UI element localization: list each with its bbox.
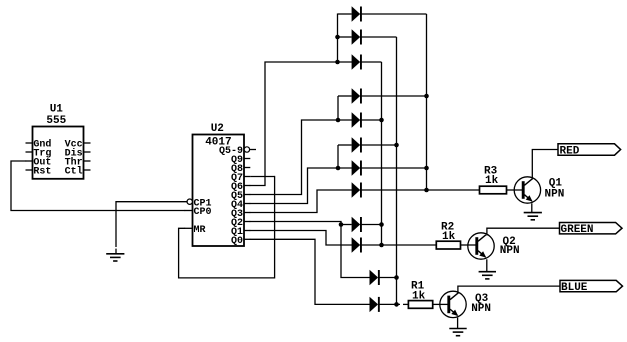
- U2 pin Q0 stub: [244, 238, 250, 240]
- wire D2 anode: [338, 36, 352, 38]
- U2 pin Q5 stub: [244, 194, 250, 196]
- junction D6 cathode on BLUE bus: [394, 143, 399, 148]
- svg-text:GREEN: GREEN: [561, 224, 594, 236]
- diode D4: [352, 88, 361, 103]
- svg-text:1k: 1k: [412, 290, 426, 302]
- wire D6 anode: [338, 144, 352, 146]
- U1 pin Ctl stub: [84, 169, 91, 171]
- wire Q1 collector to RED flag: [532, 150, 558, 179]
- diode D2: [352, 29, 361, 44]
- wire U2.MR to Q7 loop: [179, 177, 275, 278]
- junction D9 cathode on GREEN bus: [379, 222, 384, 227]
- diode D8: [352, 182, 361, 197]
- U2 pin Q5-9 stub: [250, 149, 256, 151]
- wire Q3 emitter to ground: [457, 318, 459, 329]
- wire D4 cathode: [362, 95, 427, 97]
- junction GREEN bus to base line: [379, 243, 384, 248]
- transistor Q1: [514, 177, 540, 203]
- U2 pin CP1 inversion bubble: [187, 199, 192, 204]
- svg-text:RED: RED: [560, 145, 580, 157]
- wire U2.Q2 to diode D9/D11 anode bus: [250, 222, 369, 278]
- svg-text:CP0: CP0: [194, 207, 212, 218]
- U1 pin Vcc stub: [84, 142, 91, 144]
- svg-text:NPN: NPN: [545, 188, 565, 200]
- junction D4 cathode on RED bus: [424, 94, 429, 99]
- ground GND3 under Q2: [479, 271, 496, 273]
- junction D5 cathode on GREEN bus: [379, 118, 384, 123]
- wire D7 cathode: [362, 167, 427, 169]
- svg-text:NPN: NPN: [500, 245, 520, 257]
- diode D7: [352, 160, 361, 175]
- wire D2 cathode to BLUE bus: [362, 36, 397, 38]
- svg-text:U2: U2: [211, 123, 224, 135]
- U2 pin Q6 stub: [244, 185, 250, 187]
- node BLUE output flag: [560, 280, 623, 291]
- diode D12: [370, 297, 379, 312]
- diode D11: [370, 270, 379, 285]
- U1 pin Thr stub: [84, 160, 91, 162]
- svg-text:U1: U1: [50, 103, 64, 115]
- svg-text:555: 555: [46, 115, 66, 127]
- diode D6: [352, 137, 361, 152]
- U2 pin Q5-9 inversion bubble: [244, 147, 249, 152]
- wire U2.Q5 to diode D4-D5 anode bus: [250, 120, 351, 195]
- wire anode bus D1-D3 vertical: [337, 14, 339, 63]
- op-amp U1 555 timer body: [33, 127, 84, 179]
- U2 pin Q1 stub: [244, 230, 250, 232]
- wire ground stub: [115, 249, 117, 254]
- ground GND2 under Q1: [524, 212, 542, 214]
- node RED output flag: [558, 144, 621, 155]
- junction D7 anode: [336, 166, 341, 171]
- U2 pin Q7 stub: [244, 176, 250, 178]
- U2 pin Q2 stub: [244, 221, 250, 223]
- junction D9 anode: [339, 222, 344, 227]
- wire D1 anode: [338, 13, 352, 15]
- wire R1 to Q3 base: [433, 303, 448, 305]
- ground GND4 under Q3: [449, 328, 466, 330]
- junction D7 cathode on RED bus: [424, 166, 429, 171]
- wire D9 anode: [341, 224, 352, 226]
- wire D3 cathode to GREEN bus: [362, 61, 382, 63]
- wire U2.Q7 row: [250, 176, 274, 178]
- svg-text:BLUE: BLUE: [561, 282, 588, 294]
- wire anode bus D4-D5 vertical: [337, 96, 339, 120]
- diode D5: [352, 112, 361, 127]
- junction D5 anode: [336, 118, 341, 123]
- wire Q2 collector to GREEN flag: [487, 228, 560, 235]
- U1 pin Gnd stub: [26, 142, 33, 144]
- junction RED bus to base line: [424, 188, 429, 193]
- svg-text:Q0: Q0: [231, 236, 243, 247]
- wire GREEN bus vertical: [381, 62, 383, 245]
- transistor Q2: [468, 233, 494, 259]
- junction D3 anode: [335, 60, 340, 65]
- junction D11 cathode on BLUE bus: [394, 275, 399, 280]
- wire Q2 emitter to ground: [486, 259, 488, 271]
- diode D3: [352, 54, 361, 69]
- diode D9: [352, 217, 361, 232]
- wire U2.Q0 to diode D12 anode: [250, 239, 369, 304]
- wire Q1 emitter to ground: [531, 203, 533, 212]
- wire D4 anode: [338, 95, 352, 97]
- resistor R3 body: [480, 186, 507, 194]
- svg-text:Ctl: Ctl: [65, 166, 83, 178]
- wire BLUE bus vertical: [396, 37, 398, 304]
- U2 pin Q4 stub: [244, 203, 250, 205]
- wire D10 cathode to R2: [362, 244, 437, 246]
- U2 pin CP0 stub: [185, 210, 193, 212]
- U1 pin Dis stub: [84, 151, 91, 153]
- svg-text:1k: 1k: [442, 231, 456, 243]
- wire anode bus D6-D7 vertical: [337, 145, 339, 168]
- wire U1.Out to U2.CP0: [11, 161, 185, 211]
- U1 pin Rst stub: [26, 169, 33, 171]
- wire U2.CP1 to ground: [116, 202, 187, 247]
- junction D2 anode: [335, 35, 340, 40]
- svg-text:MR: MR: [194, 225, 206, 236]
- wire R2 to Q2 base: [461, 244, 476, 246]
- U2 pin Q8 stub: [244, 167, 250, 169]
- U2 pin MR stub: [185, 227, 193, 229]
- U1 pin Out stub: [26, 160, 33, 162]
- wire D9 cathode: [362, 224, 382, 226]
- wire U2.Q6 to diode D1-D3 anode bus: [250, 62, 351, 186]
- wire RED bus vertical: [426, 14, 428, 190]
- wire D1 cathode to RED bus: [362, 13, 427, 15]
- diode D1: [352, 6, 361, 21]
- wire D5 cathode: [362, 119, 382, 121]
- node GREEN output flag: [560, 223, 623, 234]
- transistor Q3: [440, 291, 466, 317]
- svg-text:NPN: NPN: [471, 303, 491, 315]
- svg-text:1k: 1k: [485, 175, 499, 187]
- wire D12 cathode: [380, 303, 401, 305]
- U1 pin Trg stub: [26, 151, 33, 153]
- diode D10: [352, 237, 361, 252]
- wire D8 cathode to R3: [362, 189, 480, 191]
- wire D11 cathode: [380, 277, 397, 279]
- resistor R1 body: [408, 301, 432, 309]
- wire U2.Q3 to diode D8 anode: [250, 190, 351, 213]
- wire U2.Q1 to diode D10 anode: [250, 231, 351, 246]
- wire Q3 collector to BLUE flag: [458, 286, 560, 293]
- wire D6 cathode: [362, 144, 397, 146]
- U2 4017 counter body: [193, 135, 245, 247]
- wire U2.Q4 to diode D6-D7 anode bus: [250, 168, 351, 204]
- U2 pin Q3 stub: [244, 212, 250, 214]
- wire to R1 left terminal: [403, 303, 408, 305]
- U2 pin Q9 stub: [244, 158, 250, 160]
- resistor R2 body: [436, 241, 460, 249]
- svg-text:Rst: Rst: [33, 167, 51, 178]
- ground GND1 near U2.CP1: [106, 253, 124, 255]
- wire R3 to Q1 base: [507, 189, 523, 191]
- junction BLUE bus to base line: [394, 302, 399, 307]
